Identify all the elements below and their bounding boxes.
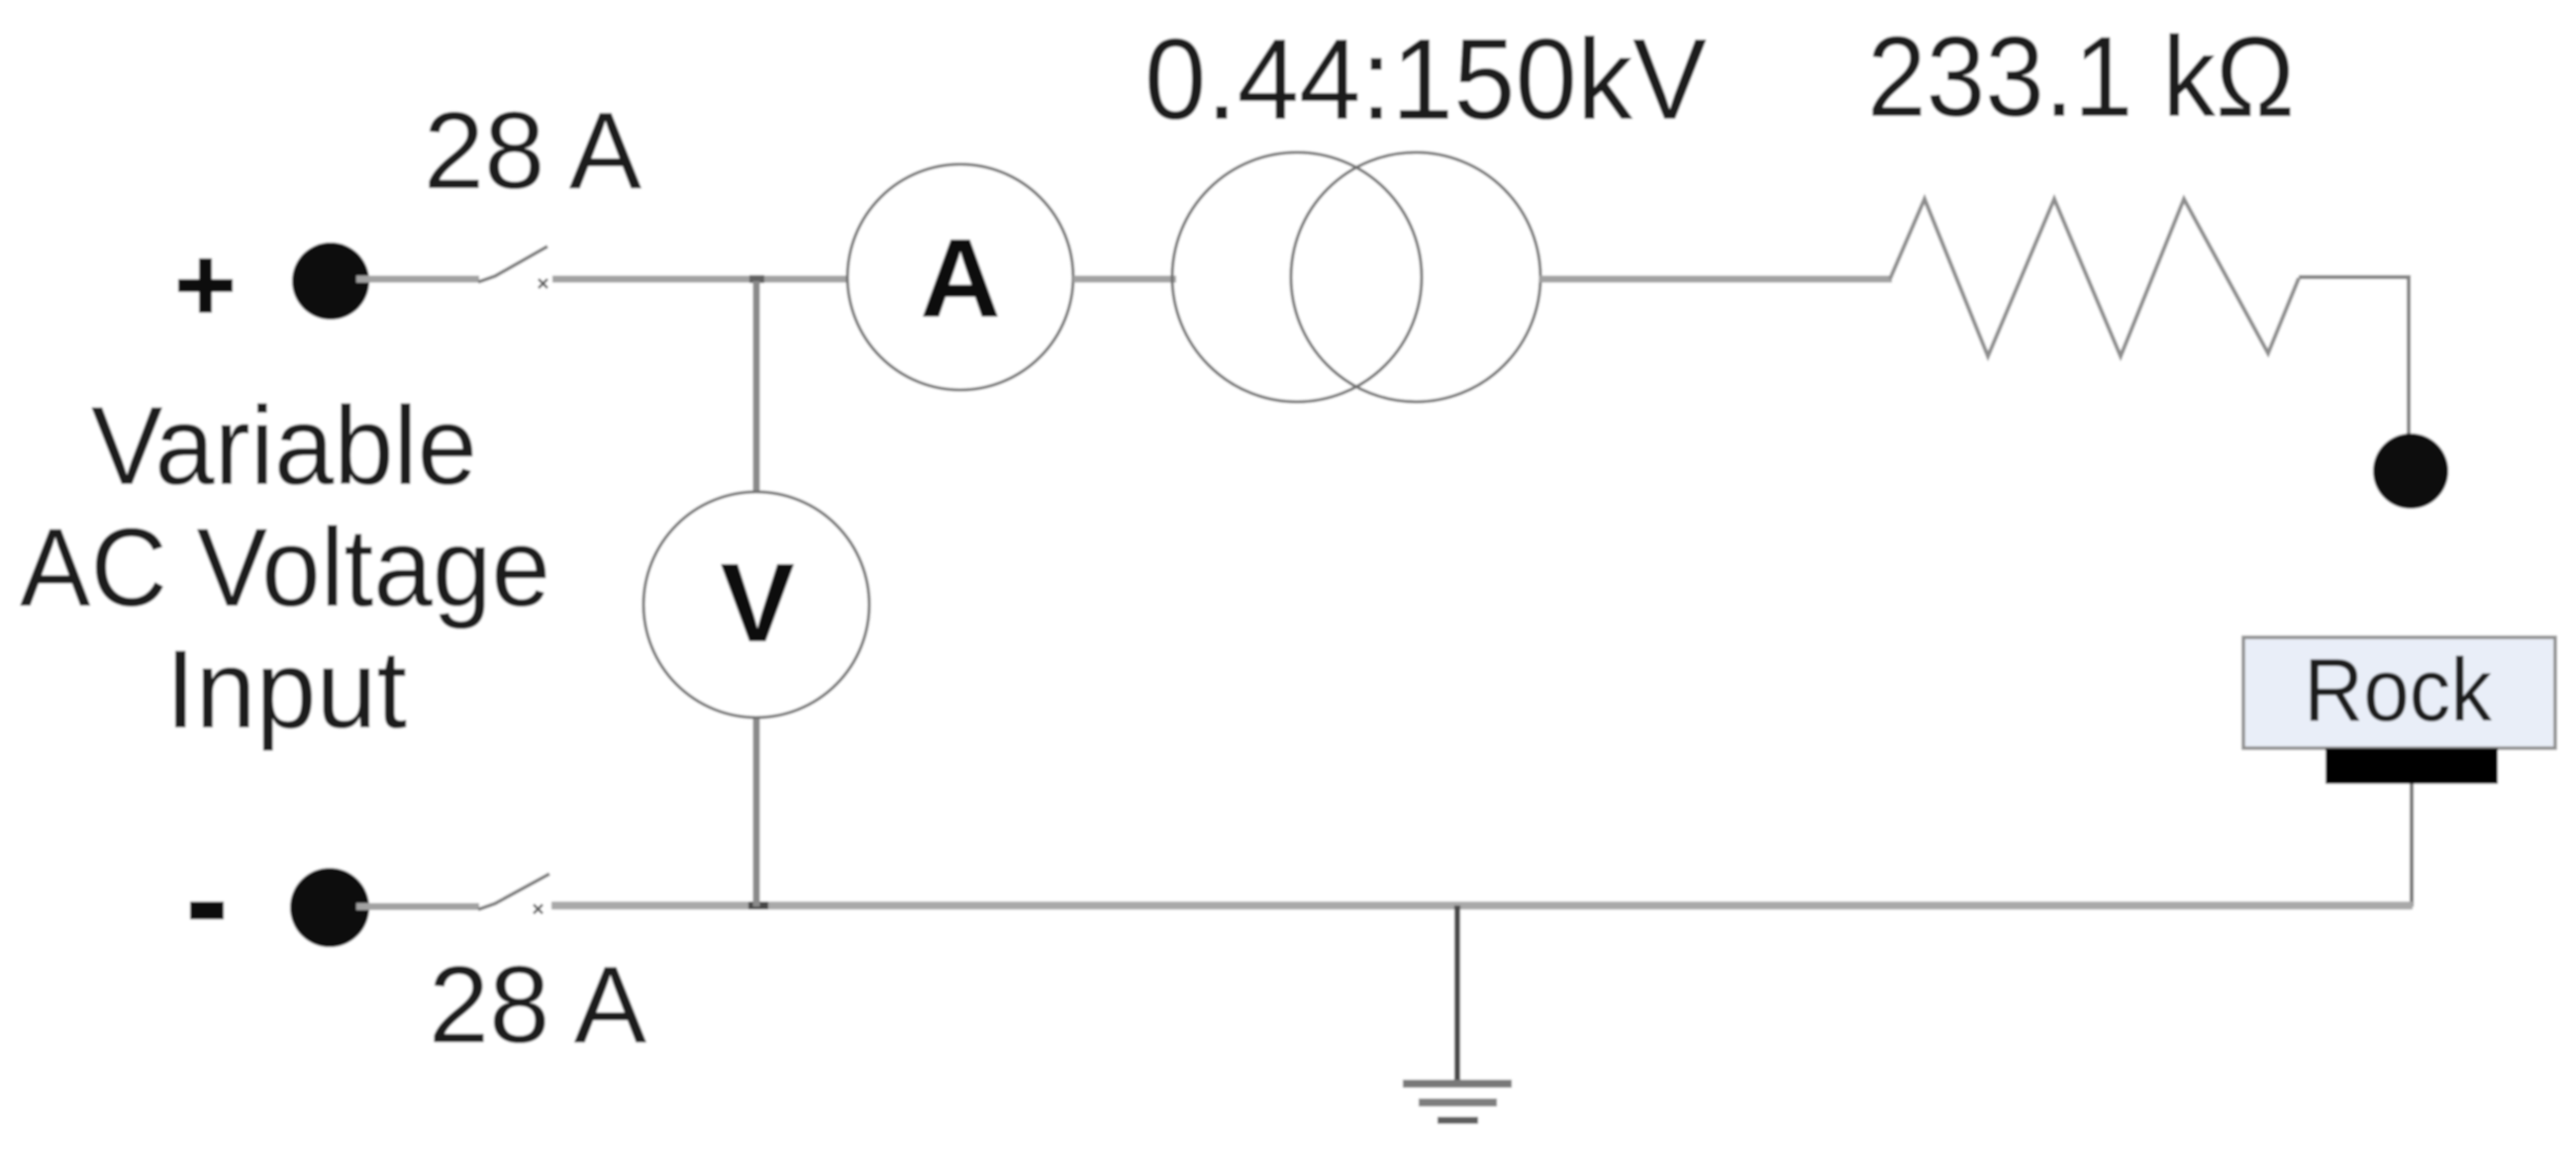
resistor R1 zigzag — [1890, 199, 2299, 356]
plus sign of input terminal — [178, 258, 233, 313]
wire: bottom ground bus — [551, 902, 2413, 910]
svg-text:0.44:150kV: 0.44:150kV — [1144, 15, 1707, 144]
wire: transformer to resistor R1 — [1539, 276, 1892, 283]
wire: voltmeter branch (bottom segment) — [753, 716, 760, 907]
svg-text:AC Voltage: AC Voltage — [20, 506, 550, 629]
ground symbol bar 2 — [1419, 1099, 1497, 1106]
node: HV electrode dot — [2373, 433, 2448, 509]
ground symbol bar 1 — [1403, 1080, 1512, 1088]
wire: + terminal to switch S1 — [356, 276, 479, 283]
node: junction tick voltmeter/bottom bus — [748, 902, 768, 910]
svg-text:Variable: Variable — [91, 384, 477, 508]
wire: switch S1 to ammeter — [552, 276, 849, 283]
ammeter A1 body — [847, 164, 1073, 390]
wire: - terminal to switch S2 — [356, 904, 479, 910]
transformer T1 primary winding — [1172, 152, 1422, 402]
node: negative input terminal — [290, 868, 369, 947]
node: junction tick to voltmeter branch — [749, 275, 764, 283]
wire: resistor R1 to HV electrode (corner) — [2299, 277, 2409, 437]
switch S1 fixed contact mark (x) — [539, 279, 547, 288]
rock sample box — [2243, 637, 2555, 748]
node: positive input terminal — [292, 242, 369, 320]
ground symbol bar 3 — [1437, 1117, 1478, 1124]
svg-text:28 A: 28 A — [429, 944, 647, 1066]
ground symbol stem — [1454, 906, 1460, 1084]
label: Variable AC Voltage Input — [20, 384, 550, 751]
svg-text:233.1 kΩ: 233.1 kΩ — [1867, 14, 2295, 141]
wire: ammeter to transformer — [1073, 276, 1176, 283]
transformer T1 secondary winding — [1291, 152, 1540, 402]
switch S2 fixed contact mark (x) — [534, 905, 543, 913]
svg-text:Rock: Rock — [2304, 641, 2493, 740]
svg-text:A: A — [920, 216, 1001, 340]
wire: rock plate to bottom bus — [2410, 784, 2414, 907]
svg-text:28 A: 28 A — [424, 90, 643, 212]
minus sign of input terminal — [190, 902, 224, 919]
ground electrode plate under rock — [2326, 748, 2498, 784]
voltmeter V1 body — [644, 492, 869, 718]
svg-text:V: V — [720, 540, 794, 665]
svg-text:Input: Input — [165, 627, 407, 751]
switch S1 blade (open, top) — [478, 246, 547, 282]
switch S2 blade (open, bottom) — [478, 874, 549, 910]
wire: voltmeter branch (top segment) — [753, 281, 760, 494]
